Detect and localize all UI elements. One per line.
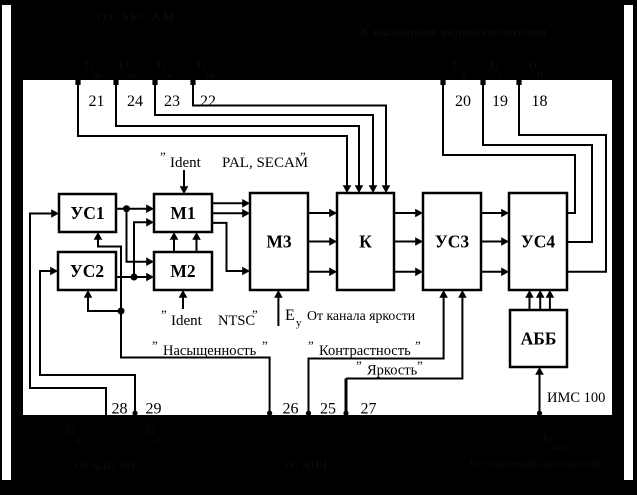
svg-text:От АПЧ: От АПЧ xyxy=(285,458,327,472)
svg-text:”: ” xyxy=(415,338,421,353)
svg-text:G: G xyxy=(499,70,506,80)
svg-text:26: 26 xyxy=(283,401,299,418)
svg-text:От БДЦ 101: От БДЦ 101 xyxy=(75,458,136,472)
svg-text:пз: пз xyxy=(155,434,164,444)
svg-text:PAL, SECAM: PAL, SECAM xyxy=(222,155,308,171)
svg-text:у: у xyxy=(296,317,302,329)
svg-text:УС3: УС3 xyxy=(435,232,469,252)
svg-text:28: 28 xyxy=(112,401,128,418)
svg-text:Насыщенность: Насыщенность xyxy=(163,343,257,359)
svg-text:25: 25 xyxy=(320,401,336,418)
svg-text:”: ” xyxy=(161,307,167,322)
svg-text:Контрастность: Контрастность xyxy=(319,343,411,359)
svg-text:М1: М1 xyxy=(170,203,195,223)
svg-text:М2: М2 xyxy=(170,261,195,281)
svg-text:”: ” xyxy=(356,358,362,373)
svg-text:”: ” xyxy=(252,307,258,322)
svg-text:E: E xyxy=(285,307,295,324)
svg-text:От канала яркости: От канала яркости xyxy=(307,308,416,323)
svg-text:24: 24 xyxy=(127,93,143,110)
svg-text:цз: цз xyxy=(93,70,102,80)
svg-text:”: ” xyxy=(152,338,158,353)
svg-text:К выходным видеоусилителям: К выходным видеоусилителям xyxy=(360,24,547,39)
svg-text:20: 20 xyxy=(455,93,471,110)
svg-text:АББ: АББ xyxy=(521,329,557,349)
svg-text:К: К xyxy=(359,232,372,252)
svg-text:кр: кр xyxy=(206,70,215,80)
svg-text:Ident: Ident xyxy=(170,155,202,171)
svg-text:19: 19 xyxy=(492,93,508,110)
svg-text:УС1: УС1 xyxy=(70,203,104,223)
svg-text:27: 27 xyxy=(361,401,377,418)
svg-text:Ident: Ident xyxy=(171,313,203,329)
svg-text:”: ” xyxy=(417,358,423,373)
svg-text:21: 21 xyxy=(89,93,105,110)
svg-text:”: ” xyxy=(308,338,314,353)
svg-text:NTSC: NTSC xyxy=(218,313,255,329)
svg-text:УС2: УС2 xyxy=(70,261,104,281)
svg-text:23: 23 xyxy=(164,93,180,110)
svg-text:От ключевой импульсной: От ключевой импульсной xyxy=(470,456,602,470)
svg-text:М3: М3 xyxy=(266,232,292,252)
svg-text:29: 29 xyxy=(146,401,162,418)
svg-text:От SECAM: От SECAM xyxy=(97,9,176,24)
svg-text:18: 18 xyxy=(532,93,548,110)
svg-text:”: ” xyxy=(262,338,268,353)
svg-text:цз: цз xyxy=(75,434,84,444)
svg-text:R: R xyxy=(461,70,467,80)
svg-text:зс: зс xyxy=(166,70,174,80)
svg-text:22: 22 xyxy=(200,93,216,110)
svg-text:Яркость: Яркость xyxy=(367,363,418,379)
svg-text:B: B xyxy=(537,70,543,80)
svg-text:кс: кс xyxy=(128,70,136,80)
svg-text:ИМС 100: ИМС 100 xyxy=(547,390,605,406)
svg-text:УС4: УС4 xyxy=(521,232,555,252)
svg-text:”: ” xyxy=(160,149,166,164)
svg-text:”: ” xyxy=(300,149,306,164)
svg-text:имс: имс xyxy=(552,442,567,452)
